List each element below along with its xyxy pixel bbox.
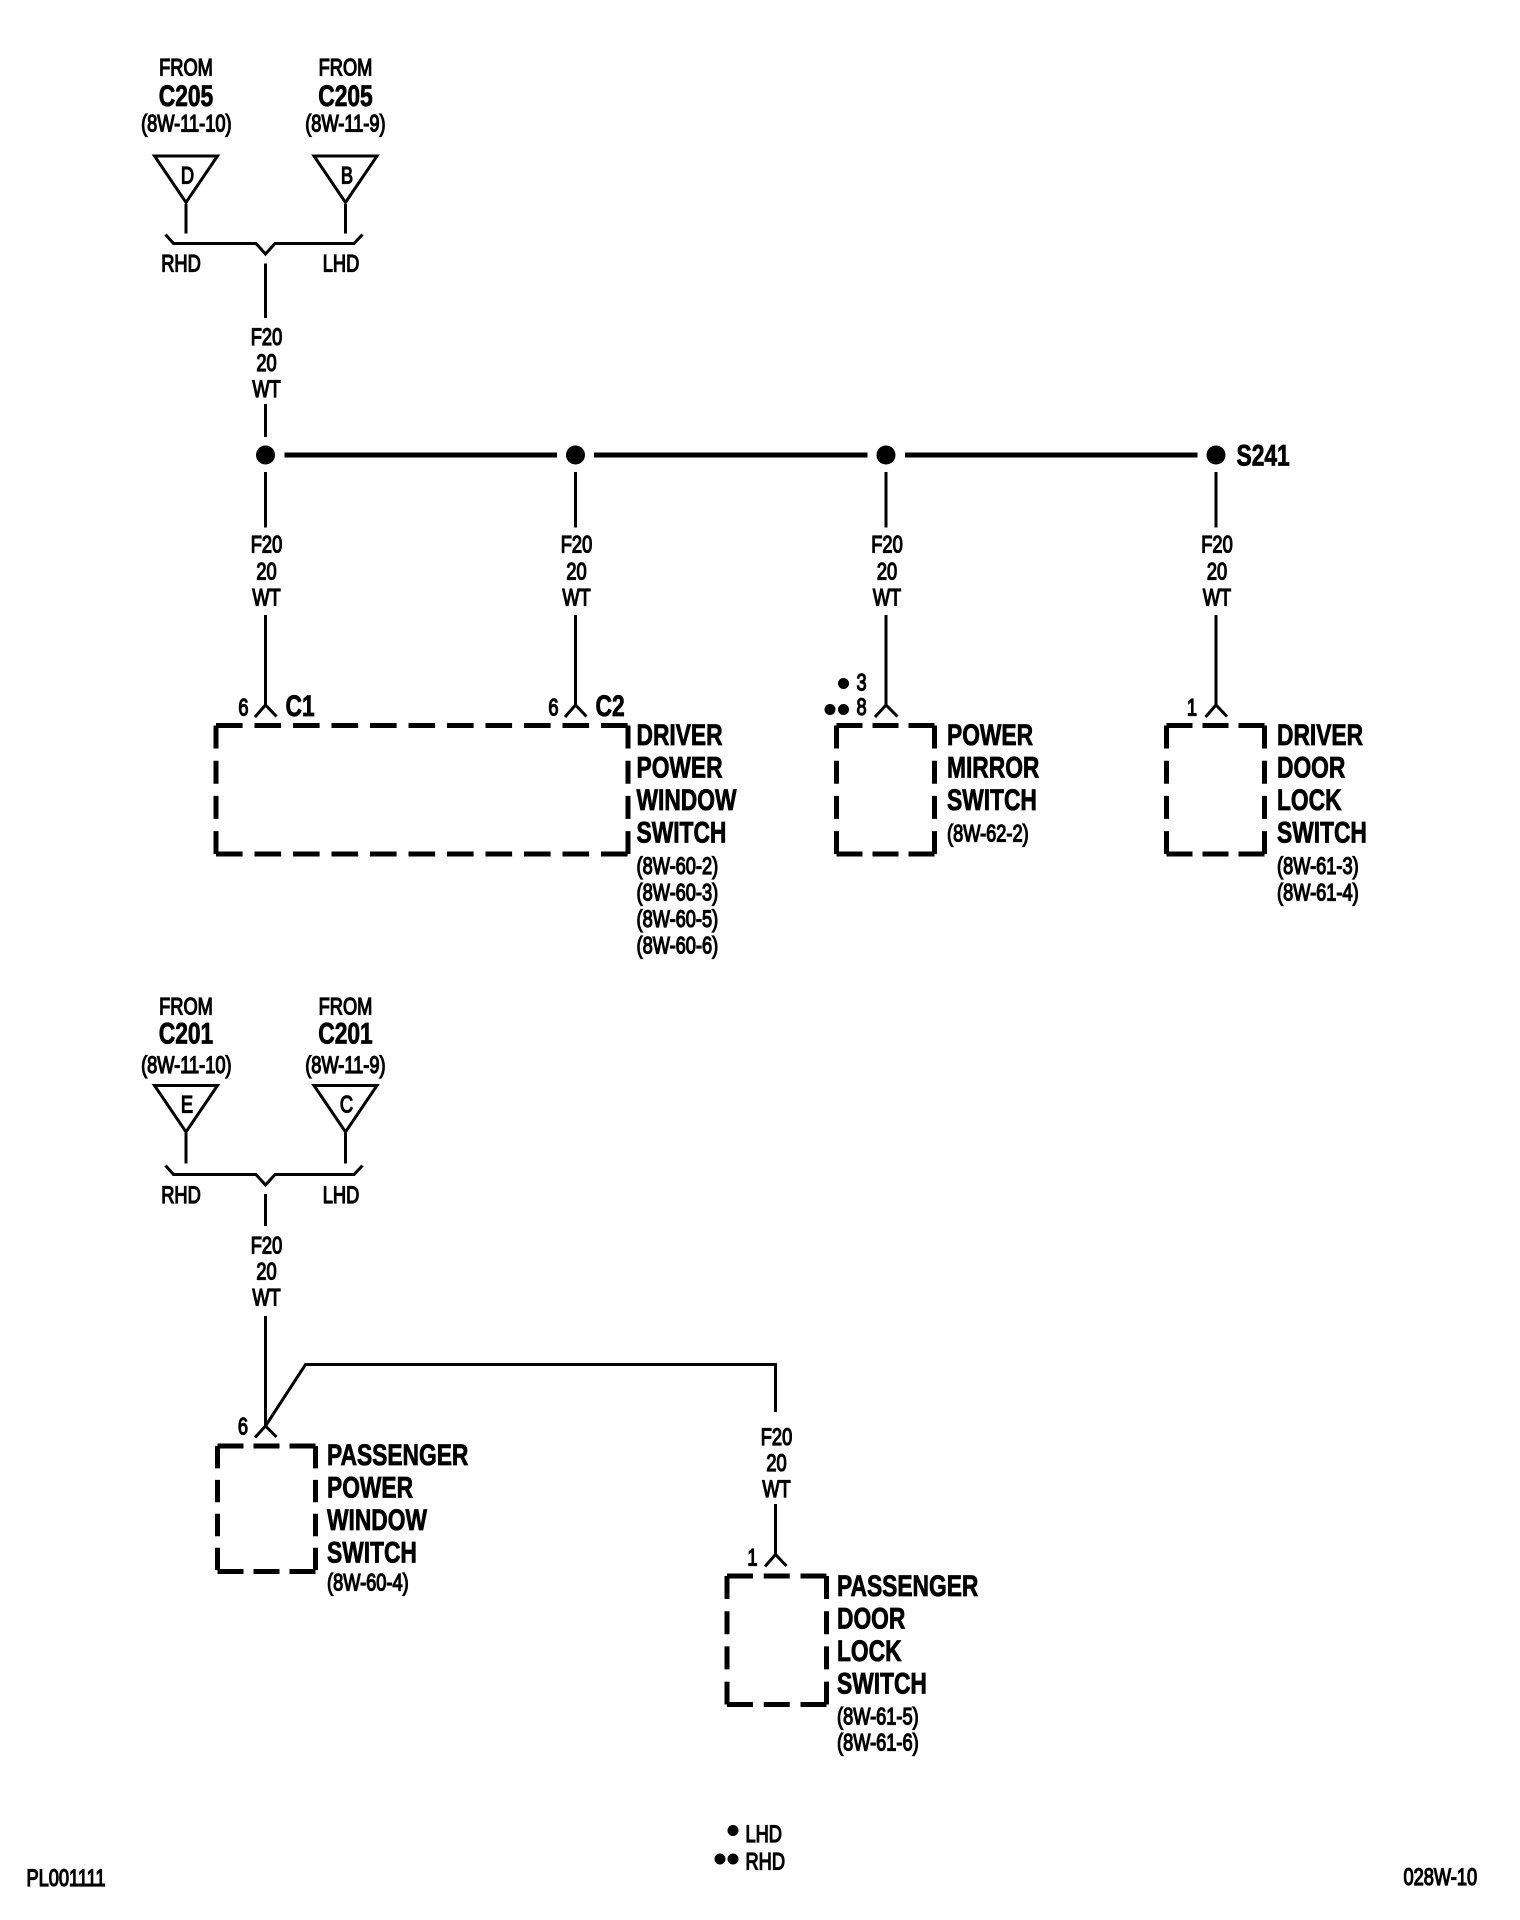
label PASSENGER DOOR LOCK SWITCH	[837, 1569, 978, 1756]
svg-text:6: 6	[238, 694, 248, 721]
svg-text:F20: F20	[871, 531, 903, 558]
connector symbol at power mirror switch	[875, 705, 898, 717]
off-page connector triangle B	[314, 156, 377, 203]
svg-text:(8W-61-5): (8W-61-5)	[837, 1703, 919, 1730]
node: label FROM C205 (8W-11-10)	[141, 54, 231, 137]
RHD/LHD merge brace (lower)	[166, 1166, 363, 1186]
svg-text:20: 20	[1207, 558, 1227, 585]
svg-text:PASSENGER: PASSENGER	[837, 1569, 978, 1603]
svg-text:F20: F20	[251, 531, 283, 558]
wire drop 2 upper	[574, 472, 577, 528]
splice S241 dot	[1207, 446, 1226, 465]
svg-text:WT: WT	[562, 584, 590, 611]
svg-text:(8W-62-2): (8W-62-2)	[947, 820, 1029, 847]
svg-text:LOCK: LOCK	[1277, 783, 1342, 817]
LHD pin marker dot	[838, 678, 849, 689]
wire drop 3 upper	[885, 472, 888, 528]
wire label F20 20 WT (lower feed)	[251, 1232, 283, 1311]
svg-text:C: C	[340, 1091, 353, 1118]
svg-text:(8W-60-3): (8W-60-3)	[637, 879, 719, 906]
wire drop 1 upper	[264, 472, 267, 528]
svg-text:FROM: FROM	[159, 54, 213, 81]
svg-text:(8W-60-6): (8W-60-6)	[637, 932, 719, 959]
svg-text:WT: WT	[252, 1284, 280, 1311]
svg-text:WT: WT	[1203, 584, 1231, 611]
svg-text:C201: C201	[159, 1016, 214, 1050]
wire drop 2 lower	[574, 615, 577, 705]
svg-text:SWITCH: SWITCH	[1277, 815, 1367, 849]
svg-text:(8W-61-6): (8W-61-6)	[837, 1729, 919, 1756]
svg-text:WINDOW: WINDOW	[637, 783, 738, 817]
wire down to passenger door lock switch	[774, 1504, 777, 1555]
svg-text:1: 1	[1187, 694, 1197, 721]
wire branch diagonal	[266, 1365, 776, 1427]
wire label F20 20 WT (drop 1)	[251, 531, 283, 611]
svg-text:6: 6	[238, 1413, 248, 1440]
svg-text:F20: F20	[251, 1232, 283, 1259]
svg-text:F20: F20	[561, 531, 593, 558]
node: label FROM C205 (8W-11-9)	[305, 54, 385, 137]
wire label F20 20 WT (drop 4)	[1201, 531, 1233, 611]
svg-text:C205: C205	[318, 79, 373, 113]
svg-text:E: E	[181, 1091, 193, 1118]
RHD/LHD merge brace (top)	[166, 235, 363, 255]
svg-text:SWITCH: SWITCH	[837, 1666, 927, 1700]
svg-text:(8W-60-4): (8W-60-4)	[327, 1569, 409, 1596]
svg-text:(8W-61-3): (8W-61-3)	[1277, 853, 1359, 880]
driver door lock switch (dashed box)	[1167, 726, 1265, 855]
svg-text:LOCK: LOCK	[837, 1634, 902, 1668]
svg-text:1: 1	[747, 1544, 757, 1571]
wire F20 feed (top)	[264, 264, 267, 319]
svg-text:DRIVER: DRIVER	[637, 718, 723, 752]
svg-text:3: 3	[857, 669, 867, 696]
label PASSENGER POWER WINDOW SWITCH	[327, 1438, 468, 1596]
svg-text:PL001111: PL001111	[27, 1865, 106, 1892]
svg-text:WT: WT	[873, 584, 901, 611]
junction dot 2	[566, 446, 585, 465]
svg-text:S241: S241	[1237, 438, 1290, 472]
passenger door lock switch (dashed box)	[727, 1576, 827, 1705]
bus wire segment 2	[594, 453, 868, 458]
node: label FROM C201 (8W-11-10)	[141, 993, 231, 1079]
wire label F20 20 WT (drop 3)	[871, 531, 903, 611]
svg-text:028W-10: 028W-10	[1404, 1864, 1478, 1891]
svg-text:DRIVER: DRIVER	[1277, 718, 1363, 752]
svg-text:F20: F20	[1201, 531, 1233, 558]
svg-text:POWER: POWER	[327, 1470, 413, 1504]
svg-text:20: 20	[256, 350, 276, 377]
svg-text:F20: F20	[761, 1424, 793, 1451]
junction dot 1	[256, 446, 275, 465]
svg-text:20: 20	[256, 1258, 276, 1285]
connector symbol at C2 pin 6	[565, 705, 587, 717]
svg-text:20: 20	[566, 558, 586, 585]
svg-text:(8W-11-9): (8W-11-9)	[305, 1052, 385, 1079]
svg-text:DOOR: DOOR	[1277, 750, 1345, 784]
wire down to passenger window switch	[264, 1316, 267, 1426]
svg-text:LHD: LHD	[323, 1182, 359, 1209]
svg-text:SWITCH: SWITCH	[327, 1535, 417, 1569]
svg-text:SWITCH: SWITCH	[637, 815, 727, 849]
svg-text:WT: WT	[762, 1476, 790, 1503]
passenger power window switch (dashed box)	[218, 1446, 316, 1572]
label DRIVER POWER WINDOW SWITCH	[637, 718, 738, 959]
wire drop 1 lower	[264, 615, 267, 705]
wire label F20 20 WT (passenger door lock feed)	[761, 1424, 793, 1503]
svg-text:C1: C1	[286, 689, 315, 723]
wire drop 3 lower	[885, 615, 888, 705]
svg-text:(8W-61-4): (8W-61-4)	[1277, 879, 1359, 906]
svg-text:RHD: RHD	[746, 1848, 785, 1875]
RHD pin marker dots	[825, 704, 850, 715]
wire into splice	[264, 404, 267, 437]
connector symbol at driver door lock switch pin 1	[1206, 705, 1228, 717]
svg-text:B: B	[341, 162, 353, 189]
svg-text:F20: F20	[251, 324, 283, 351]
svg-text:(8W-60-2): (8W-60-2)	[637, 853, 719, 880]
wire from triangle C	[344, 1133, 347, 1164]
svg-text:WT: WT	[252, 584, 280, 611]
wire drop 4 upper	[1215, 472, 1218, 528]
off-page connector triangle C	[314, 1086, 377, 1133]
bus wire segment 1	[285, 453, 558, 458]
svg-text:SWITCH: SWITCH	[947, 783, 1037, 817]
svg-text:(8W-11-9): (8W-11-9)	[305, 110, 385, 137]
svg-text:DOOR: DOOR	[837, 1601, 905, 1635]
svg-text:D: D	[181, 162, 194, 189]
wire drop 4 lower	[1215, 615, 1218, 705]
svg-text:(8W-60-5): (8W-60-5)	[637, 906, 719, 933]
svg-text:RHD: RHD	[161, 1182, 200, 1209]
svg-text:RHD: RHD	[161, 250, 200, 277]
connector symbol at C1 pin 6	[255, 705, 277, 717]
svg-text:PASSENGER: PASSENGER	[327, 1438, 468, 1472]
label POWER MIRROR SWITCH	[947, 718, 1039, 847]
svg-text:20: 20	[877, 558, 897, 585]
svg-text:20: 20	[256, 558, 276, 585]
svg-text:(8W-11-10): (8W-11-10)	[141, 110, 231, 137]
svg-text:POWER: POWER	[947, 718, 1033, 752]
connector symbol at passenger door lock switch pin 1	[765, 1555, 787, 1567]
driver power window switch (dashed box)	[216, 726, 628, 855]
svg-text:C201: C201	[318, 1016, 373, 1050]
junction dot 3	[877, 446, 896, 465]
svg-text:MIRROR: MIRROR	[947, 750, 1039, 784]
wire label F20 20 WT (top feed)	[251, 324, 283, 403]
wire from triangle B	[344, 204, 347, 234]
svg-text:LHD: LHD	[323, 250, 359, 277]
node: label FROM C201 (8W-11-9)	[305, 993, 385, 1079]
legend RHD marker dots	[715, 1854, 739, 1865]
off-page connector triangle D	[155, 156, 218, 203]
svg-text:C2: C2	[596, 689, 625, 723]
svg-text:8: 8	[857, 694, 867, 721]
svg-text:C205: C205	[159, 79, 214, 113]
svg-text:20: 20	[766, 1450, 786, 1477]
svg-text:6: 6	[548, 694, 558, 721]
wire label F20 20 WT (drop 2)	[561, 531, 593, 611]
svg-text:WT: WT	[252, 376, 280, 403]
wire from triangle E	[185, 1133, 188, 1164]
legend LHD marker dot	[728, 1825, 739, 1836]
svg-text:POWER: POWER	[637, 750, 723, 784]
bus wire segment 3	[905, 453, 1198, 458]
wire F20 feed (lower)	[264, 1194, 267, 1226]
svg-text:LHD: LHD	[746, 1821, 782, 1848]
svg-text:FROM: FROM	[319, 54, 373, 81]
svg-text:WINDOW: WINDOW	[327, 1503, 428, 1537]
wire from triangle D	[185, 204, 188, 234]
power mirror switch (dashed box)	[837, 726, 935, 855]
connector symbol at passenger power window switch pin 6	[255, 1426, 277, 1438]
label DRIVER DOOR LOCK SWITCH	[1277, 718, 1367, 906]
off-page connector triangle E	[155, 1086, 218, 1133]
svg-text:(8W-11-10): (8W-11-10)	[141, 1052, 231, 1079]
